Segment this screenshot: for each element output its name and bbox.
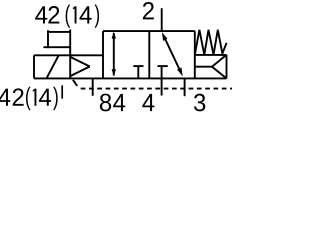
diagonal arrow head bottom xyxy=(177,68,183,77)
label 84 xyxy=(100,94,111,112)
label 3 xyxy=(194,94,205,112)
label 2 port xyxy=(143,2,154,19)
left square arrow head down xyxy=(112,69,116,76)
solenoid slash xyxy=(47,55,59,78)
T blocked port right square bar xyxy=(158,65,168,67)
exhaust triangle base xyxy=(226,55,228,79)
valve body left edge xyxy=(102,31,104,78)
pilot triangle upper side xyxy=(71,57,90,66)
left square flow arrow shaft xyxy=(113,33,115,76)
manual override stem and pilot divider xyxy=(69,30,71,79)
exhaust triangle upper side xyxy=(212,55,227,67)
exhaust feed line xyxy=(195,66,212,68)
subbase dashed line xyxy=(81,88,232,90)
manual override left side xyxy=(47,30,49,48)
pilot box left edge xyxy=(33,55,35,78)
valve body divider xyxy=(148,31,150,78)
left square arrow head up xyxy=(112,32,116,39)
pilot diagonal link xyxy=(73,80,77,86)
pilot box top edge xyxy=(34,54,103,56)
T blocked port left square bar xyxy=(133,65,143,67)
label 4 xyxy=(142,94,154,111)
diagonal arrow head top xyxy=(162,32,168,41)
exhaust triangle lower side xyxy=(212,67,227,79)
port 84 stem xyxy=(92,78,94,95)
label 42(14) bottom xyxy=(0,89,10,106)
manual override top line xyxy=(47,31,70,33)
valve body right edge xyxy=(194,31,196,78)
label 42 (14) top xyxy=(35,6,47,23)
return spring xyxy=(195,30,227,55)
floating bar xyxy=(61,85,63,98)
right square diagonal flow arrow shaft xyxy=(165,38,181,71)
port 3 stem xyxy=(184,78,186,96)
bottom edge long line xyxy=(34,77,227,79)
T blocked port left square stem xyxy=(137,66,139,78)
valve body top edge xyxy=(103,30,195,32)
exhaust box top edge xyxy=(195,54,227,56)
T blocked port right square stem and port 4 stem xyxy=(161,66,163,95)
pilot triangle lower side xyxy=(71,67,90,76)
manual override bottom line xyxy=(43,46,70,48)
port 2 line xyxy=(161,8,163,31)
